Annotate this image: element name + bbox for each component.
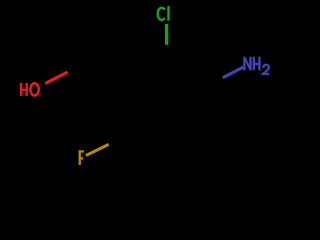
bond C-N (blue half) <box>223 67 244 78</box>
bond C-F (olive half) <box>86 144 109 155</box>
label NH2 : H glyph <box>253 57 261 71</box>
label NH2 : N glyph <box>244 57 250 71</box>
bond O-CH2 (red half) <box>45 72 67 83</box>
label F glyph <box>79 150 84 165</box>
bond C-Cl (green half) <box>165 24 168 45</box>
label HO : O glyph <box>30 83 38 95</box>
label Cl : C glyph <box>158 8 165 20</box>
chemical structure skeletal formula on black background <box>0 0 300 176</box>
label Cl : l glyph <box>167 6 169 21</box>
label HO : H glyph <box>20 83 28 96</box>
label NH2 : subscript 2 <box>263 65 269 74</box>
